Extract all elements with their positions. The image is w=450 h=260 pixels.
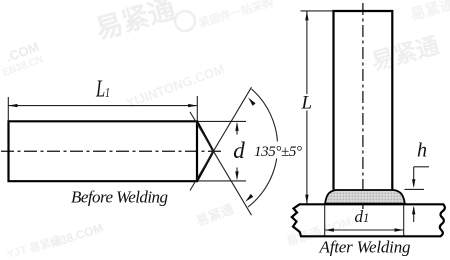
angle dimension arc 135° xyxy=(245,89,277,207)
stud point cone 135° xyxy=(197,121,213,181)
dimension L1 xyxy=(8,96,197,121)
cone construction line A (lower-left to upper-right) xyxy=(190,87,252,190)
dimension d (ticks and arrows) xyxy=(198,121,247,180)
weld collar xyxy=(325,190,405,204)
base plate xyxy=(292,204,445,236)
stud body (before welding) xyxy=(9,121,198,181)
stud centerline (after welding) xyxy=(362,3,364,209)
svg-text:After Welding: After Welding xyxy=(319,238,411,257)
dimension h xyxy=(405,167,430,222)
svg-text:L: L xyxy=(301,93,313,114)
label 135°±5° xyxy=(253,142,303,159)
stud shank (after welding) xyxy=(334,11,393,190)
dimension L xyxy=(301,11,333,204)
svg-text:Before Welding: Before Welding xyxy=(71,188,168,207)
dimension d1 xyxy=(325,206,404,236)
stud centerline (before welding) xyxy=(1,150,222,152)
svg-text:135°±5°: 135°±5° xyxy=(254,144,302,160)
cone construction line B (upper-left to lower-right) xyxy=(190,112,252,215)
svg-text:h: h xyxy=(417,139,427,161)
svg-text:d: d xyxy=(233,138,245,163)
